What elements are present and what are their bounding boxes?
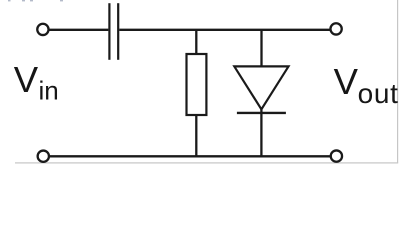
svg-text:V: V bbox=[14, 59, 39, 100]
svg-text:V: V bbox=[334, 61, 359, 102]
svg-text:in: in bbox=[39, 76, 59, 106]
svg-text:out: out bbox=[358, 78, 399, 109]
